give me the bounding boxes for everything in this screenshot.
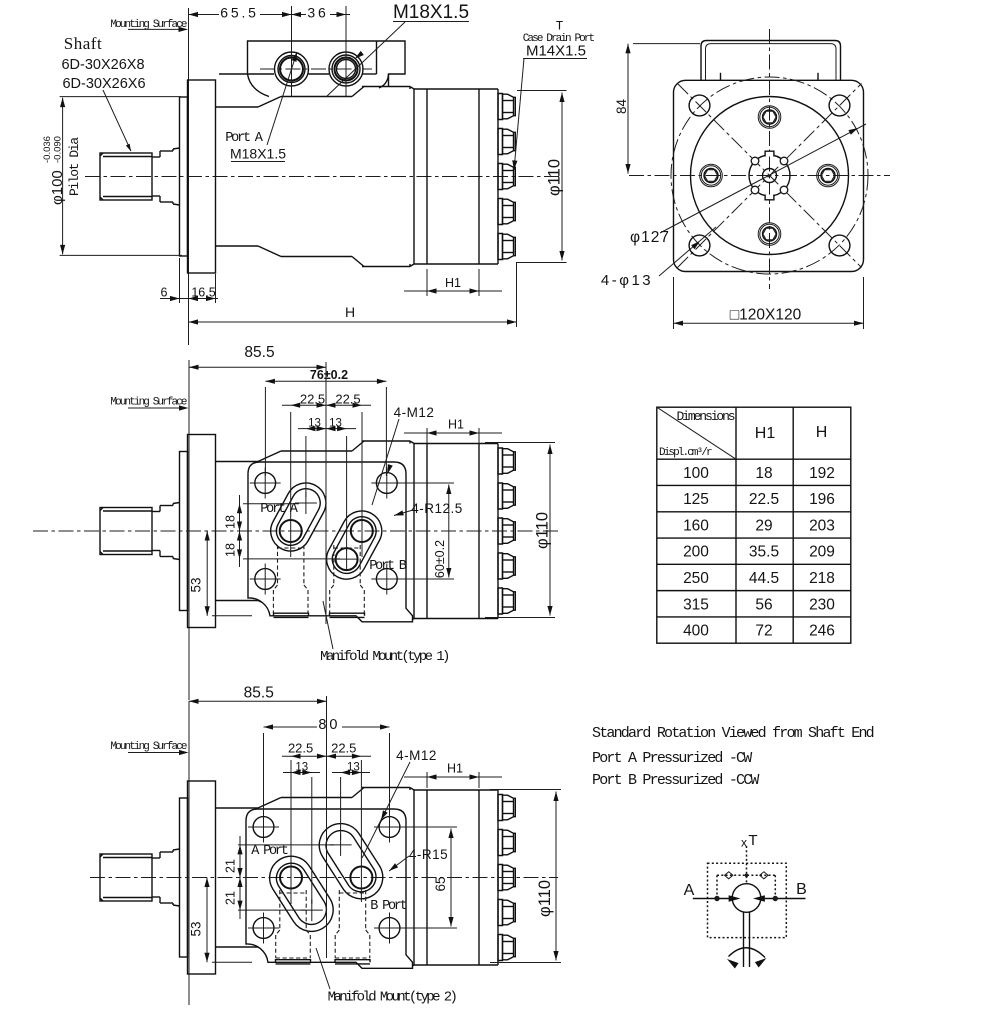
svg-text:4-R15: 4-R15 [409, 847, 448, 862]
svg-text:Mounting Surface: Mounting Surface [110, 741, 187, 753]
svg-text:Port B Pressurized -CCW: Port B Pressurized -CCW [592, 772, 759, 789]
svg-text:Port A Pressurized -CW: Port A Pressurized -CW [592, 750, 752, 767]
svg-text:203: 203 [809, 517, 835, 534]
svg-text:80: 80 [318, 717, 340, 733]
svg-text:H1: H1 [755, 425, 776, 442]
svg-text:29: 29 [755, 517, 772, 534]
svg-text:H: H [816, 424, 828, 441]
svg-text:85.5: 85.5 [244, 344, 274, 361]
svg-text:H: H [345, 304, 355, 320]
svg-text:-0.036: -0.036 [42, 136, 53, 163]
svg-text:M18X1.5: M18X1.5 [393, 2, 469, 23]
svg-text:36: 36 [307, 5, 328, 21]
svg-text:Mounting Surface: Mounting Surface [110, 397, 187, 409]
svg-text:100: 100 [683, 465, 709, 482]
svg-text:Displ.cm³/r: Displ.cm³/r [659, 447, 712, 459]
svg-text:6: 6 [161, 286, 168, 300]
svg-text:Shaft: Shaft [64, 34, 102, 53]
svg-text:209: 209 [809, 544, 835, 561]
svg-text:22.5: 22.5 [288, 741, 313, 756]
svg-text:65.5: 65.5 [220, 5, 258, 21]
svg-text:Pilot Dia: Pilot Dia [67, 137, 82, 196]
svg-text:Manifold Mount(type 1): Manifold Mount(type 1) [320, 649, 449, 665]
svg-text:72: 72 [755, 623, 772, 640]
svg-text:B Port: B Port [370, 899, 407, 914]
svg-text:250: 250 [683, 570, 709, 587]
svg-text:φ100: φ100 [49, 170, 66, 205]
svg-text:16.5: 16.5 [191, 286, 215, 300]
svg-text:160: 160 [683, 517, 709, 534]
svg-text:218: 218 [809, 570, 835, 587]
svg-text:6D-30X26X6: 6D-30X26X6 [62, 76, 145, 92]
svg-text:4-M12: 4-M12 [394, 405, 435, 420]
svg-text:84: 84 [614, 98, 629, 114]
svg-text:18: 18 [224, 543, 238, 557]
svg-text:T: T [748, 832, 757, 849]
svg-text:22.5: 22.5 [300, 392, 325, 407]
svg-text:4-φ13: 4-φ13 [601, 272, 653, 289]
svg-text:6D-30X26X8: 6D-30X26X8 [61, 57, 144, 73]
svg-text:21: 21 [224, 859, 238, 873]
svg-text:H1: H1 [447, 762, 463, 776]
svg-text:Dimensions: Dimensions [676, 409, 734, 424]
svg-text:H1: H1 [445, 276, 461, 290]
svg-text:13: 13 [295, 762, 308, 774]
svg-text:13: 13 [347, 762, 360, 774]
svg-text:53: 53 [189, 921, 204, 936]
svg-text:60±0.2: 60±0.2 [433, 540, 447, 578]
svg-text:A: A [684, 882, 695, 899]
svg-text:22.5: 22.5 [331, 741, 356, 756]
svg-text:53: 53 [189, 577, 204, 592]
svg-text:76±0.2: 76±0.2 [310, 368, 348, 382]
svg-text:18: 18 [755, 465, 772, 482]
svg-text:Manifold Mount(type 2): Manifold Mount(type 2) [328, 990, 457, 1006]
svg-text:400: 400 [683, 623, 709, 640]
svg-text:13: 13 [308, 417, 321, 429]
svg-text:4-R12.5: 4-R12.5 [411, 501, 463, 516]
svg-text:-0.090: -0.090 [53, 136, 64, 163]
svg-text:44.5: 44.5 [749, 570, 779, 587]
svg-text:200: 200 [683, 544, 709, 561]
svg-text:T: T [556, 20, 564, 34]
svg-text:22.5: 22.5 [335, 392, 360, 407]
svg-text:196: 196 [809, 491, 835, 508]
svg-text:φ110: φ110 [546, 159, 564, 196]
svg-text:56: 56 [755, 596, 772, 613]
svg-text:x: x [741, 836, 747, 850]
svg-text:Port A: Port A [260, 502, 299, 517]
svg-text:M14X1.5: M14X1.5 [526, 43, 586, 60]
svg-text:125: 125 [683, 491, 709, 508]
svg-text:B: B [796, 881, 807, 898]
svg-text:13: 13 [329, 417, 342, 429]
svg-text:φ110: φ110 [536, 880, 554, 917]
svg-text:18: 18 [224, 515, 238, 529]
svg-text:Standard Rotation Viewed from: Standard Rotation Viewed from Shaft End [592, 725, 874, 742]
svg-text:192: 192 [809, 465, 835, 482]
svg-text:65: 65 [433, 876, 448, 891]
svg-text:A Port: A Port [251, 844, 288, 859]
svg-text:315: 315 [683, 596, 709, 613]
svg-text:φ110: φ110 [534, 512, 552, 549]
svg-text:21: 21 [224, 891, 238, 905]
svg-text:H1: H1 [448, 418, 464, 432]
svg-text:4-M12: 4-M12 [396, 748, 437, 763]
svg-text:φ127: φ127 [630, 229, 670, 246]
svg-text:M18X1.5: M18X1.5 [230, 146, 286, 162]
svg-text:Port A: Port A [225, 131, 264, 146]
svg-text:□120X120: □120X120 [730, 307, 802, 324]
svg-text:246: 246 [809, 623, 835, 640]
svg-text:230: 230 [809, 596, 835, 613]
svg-text:35.5: 35.5 [749, 544, 779, 561]
svg-text:85.5: 85.5 [244, 685, 274, 702]
svg-text:Port B: Port B [369, 559, 407, 574]
svg-text:22.5: 22.5 [749, 491, 779, 508]
